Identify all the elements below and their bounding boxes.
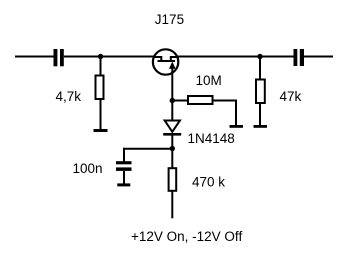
wire corner down to ground (235, 100, 237, 126)
label control voltage (131, 229, 242, 244)
wire node C down to R2 (259, 57, 261, 80)
transistor Q1 J175 circle (153, 49, 178, 74)
label 10M (196, 73, 222, 88)
wire gate down to node B (171, 68, 173, 101)
wire output right segment (304, 56, 333, 58)
transistor Q1 channel bar (158, 60, 176, 62)
resistor R2 47k (256, 80, 265, 104)
transistor Q1 source lead inside (153, 57, 162, 61)
label J175 (155, 12, 184, 27)
svg-text:4,7k: 4,7k (56, 89, 82, 104)
capacitor C1 left coupling cap (54, 49, 64, 66)
label 100n (73, 161, 103, 176)
wire node D down to R4 (171, 149, 173, 169)
capacitor C2 right coupling cap (294, 49, 305, 66)
wire from C1 to JFET source (64, 56, 154, 58)
wire node D left to C3 (123, 148, 172, 150)
svg-text:100n: 100n (73, 161, 103, 176)
node D junction dot (170, 146, 175, 151)
ground under R2 (254, 125, 268, 128)
wire node B down to D1 (171, 101, 173, 121)
wire R3 to corner (214, 100, 238, 102)
diode D1 1N4148 triangle (165, 121, 180, 132)
resistor R3 10M (188, 96, 213, 104)
capacitor C3 100n (116, 161, 132, 171)
wire input left segment (15, 56, 54, 58)
transistor Q1 gate arrow (169, 62, 176, 69)
ground under C3 (117, 183, 130, 186)
wire R2 to ground (259, 103, 261, 126)
node A junction dot (98, 54, 103, 59)
wire node B to R3 (172, 100, 188, 102)
wire C3 to ground (123, 171, 125, 184)
svg-text:47k: 47k (280, 89, 302, 104)
wire D1 cathode to node D (171, 136, 173, 150)
node C junction dot (257, 54, 262, 59)
label 1N4148 (188, 131, 235, 146)
wire JFET drain to right (178, 56, 294, 58)
label 470 k (192, 174, 225, 189)
svg-text:+12V On, -12V Off: +12V On, -12V Off (131, 229, 242, 244)
resistor R1 4,7k (96, 76, 104, 100)
diode D1 cathode bar (163, 133, 181, 136)
label 4,7k (56, 89, 82, 104)
transistor Q1 drain lead inside (171, 57, 179, 61)
wire from node A down to R1 (100, 57, 102, 76)
wire R4 down to control input (171, 191, 173, 218)
svg-text:J175: J175 (155, 12, 184, 27)
wire R1 to ground (100, 99, 102, 130)
ground under R3 (230, 125, 244, 128)
svg-text:1N4148: 1N4148 (188, 131, 235, 146)
svg-text:470 k: 470 k (192, 174, 225, 189)
ground under R1 (94, 129, 108, 132)
wire corner down to C3 (123, 148, 125, 162)
resistor R4 470 k (169, 168, 177, 191)
svg-text:10M: 10M (196, 73, 222, 88)
node B junction dot (170, 98, 175, 103)
label 47k (280, 89, 302, 104)
